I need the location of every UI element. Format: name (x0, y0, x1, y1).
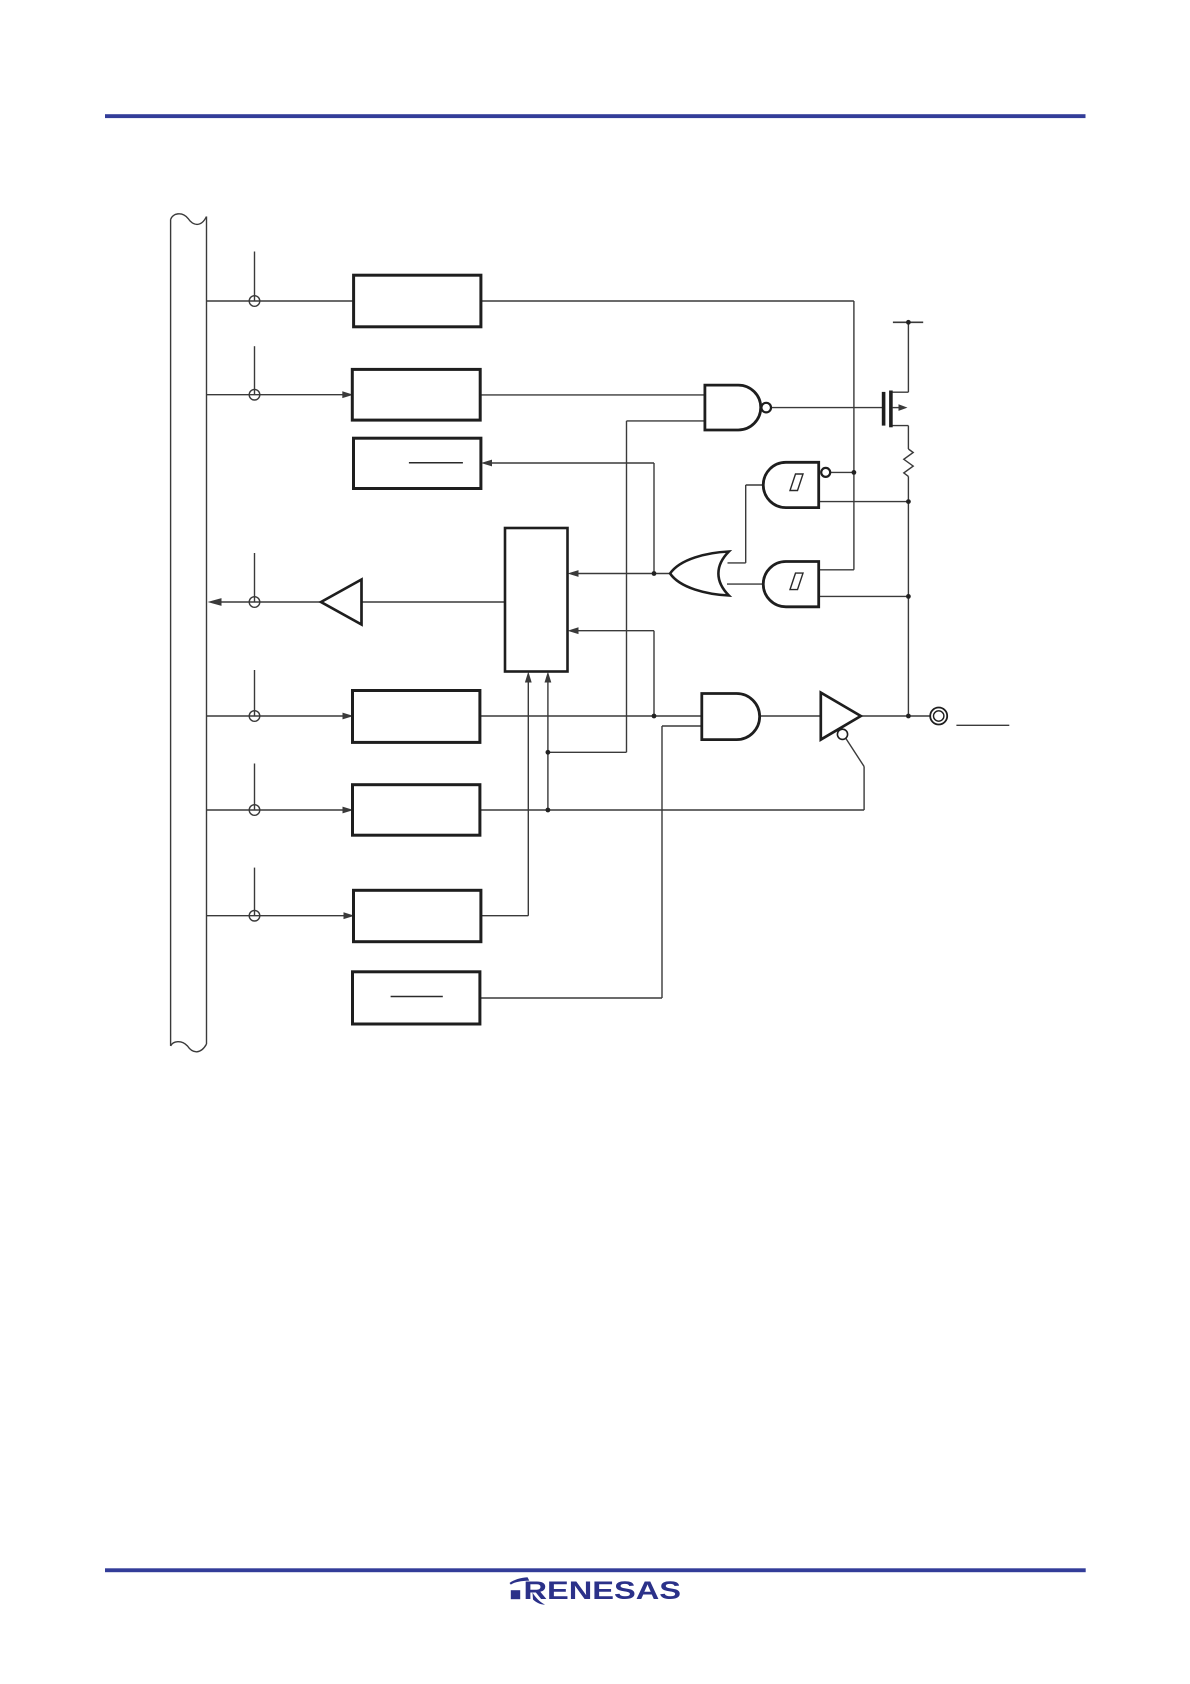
svg-text:RENESAS: RENESAS (524, 1578, 682, 1605)
